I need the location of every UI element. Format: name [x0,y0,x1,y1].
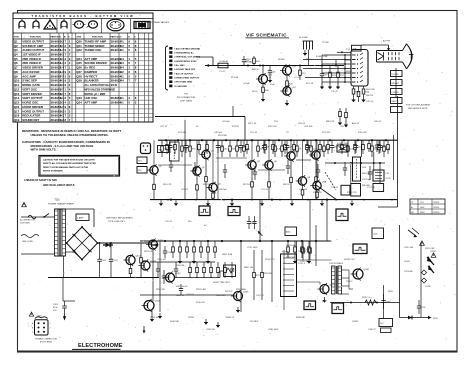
svg-text:C217 .22: C217 .22 [298,251,307,253]
svg-text:(PLUG END): (PLUG END) [40,342,52,344]
svg-text:NO VOLTAGE VALUES: NO VOLTAGE VALUES [146,21,170,24]
svg-text:47pF: 47pF [270,84,275,86]
transistor Q9 IF amplifier [296,175,311,186]
resistor R372 [371,140,378,157]
deflection arrows [408,228,419,237]
fuse box 1 AMP [76,214,89,221]
svg-text:C101: C101 [101,260,107,262]
AC line wire upper [21,216,55,218]
svg-text:R77 470: R77 470 [322,132,331,134]
ground vert x194 [192,258,196,264]
focus divider connecting wire [395,68,397,98]
svg-text:R248 56K: R248 56K [296,317,306,319]
height control box [224,265,236,277]
svg-text:Q205: Q205 [243,292,249,294]
svg-text:Q9A: Q9A [322,180,327,183]
transistor Q205 horizontal oscillator [231,290,249,302]
ground vert x180 [178,258,182,264]
warning triangle [22,202,27,206]
resistor R29 [308,241,311,258]
boost line horizontal [330,302,400,304]
capacitor C204 [247,216,257,229]
ground under L6 [303,50,307,56]
transistor Q1 IF amplifier [147,164,162,175]
capacitor C380 [378,140,386,153]
transistor Q10 video driver [256,73,273,85]
svg-text:SAFETY ALL FOR EACH REPLACEMEN: SAFETY ALL FOR EACH REPLACEMENT PARTS PE… [43,162,96,165]
resistor R81 [368,140,371,152]
svg-text:L6 4.5MC: L6 4.5MC [299,37,309,39]
capacitor C287 [285,140,293,153]
waveform test point [332,303,344,314]
capacitor CY232 [230,262,234,278]
vert section horizontal link C [140,294,233,296]
svg-text:1 AGC KEYING GROUND: 1 AGC KEYING GROUND [174,47,200,50]
power area extra darkening [55,208,66,210]
svg-text:C243 .33: C243 .33 [176,295,185,297]
table body text rows right group [76,39,137,104]
svg-text:C65 .02: C65 .02 [374,121,382,123]
svg-text:38-9001-2: 38-9001-2 [51,118,65,122]
transistor Q101 regulator [123,254,141,266]
labels above IF bus [160,126,367,134]
on-off switch SW1 [43,214,49,218]
transistor outline symbol 8 (power package) [134,22,150,29]
resistor R61 [352,86,360,97]
svg-text:L7G: L7G [420,202,424,204]
wire from PIX connector to VIF line [196,56,213,58]
HV cage box 2 [381,328,392,333]
ground arrow below C103 [63,313,66,321]
resistor R63 [362,86,370,97]
long vertical divider wire C [259,200,261,241]
svg-text:L5 DELAY: L5 DELAY [219,60,229,63]
svg-text:CR205: CR205 [430,251,437,253]
right vertical rail upper [397,96,399,207]
svg-text:SOUND DET: SOUND DET [22,118,39,122]
resistor RY218 [217,262,220,278]
anode wire arrow into CRT [387,45,390,51]
detector box B3 [373,184,384,192]
svg-text:VIF SCHEMATIC: VIF SCHEMATIC [246,32,287,38]
svg-text:NOTED SCHEMATIC: NOTED SCHEMATIC [43,170,64,173]
ground [361,97,365,103]
IF strip supply bus [158,139,398,141]
detector vertical wires [350,163,352,184]
table body column lines [21,39,23,122]
CRT replacement note [406,104,431,110]
resistor R190 [189,140,196,157]
right side vertical wire [420,242,422,318]
svg-text:C47 .02: C47 .02 [160,126,168,128]
VIF underline [246,37,290,39]
svg-text:AGC: AGC [286,231,291,234]
svg-text:R246 3.9: R246 3.9 [226,317,235,319]
svg-text:HV: HV [381,323,385,325]
Q8 collector wire [315,140,317,151]
transistor Q12 blanker [280,85,296,96]
svg-text:380V: 380V [346,71,351,73]
svg-text:R229 820: R229 820 [263,273,273,275]
resistor RX328 [327,140,330,154]
bridge input wires [66,208,95,210]
vert section horizontal link B [175,277,221,279]
ground [336,84,340,90]
transistor outline symbol 4 [61,19,67,29]
diode CR204 inline [408,316,412,320]
waveform test point [336,209,348,221]
svg-text:R66 1M: R66 1M [366,95,373,97]
svg-text:WITH OHM VOLTS.: WITH OHM VOLTS. [31,147,57,151]
resistor R233 [302,241,305,260]
svg-text:C238 .0056: C238 .0056 [268,329,279,331]
resistor R275 [274,140,282,157]
svg-text:BLANKER: BLANKER [85,79,100,83]
upper mid extra labels [218,121,382,137]
capacitor CX171 [169,160,173,172]
capacitor CX345 [343,162,347,176]
ground at x208 [206,200,210,206]
ground [268,77,272,83]
PIX connector pin 6 [169,68,196,71]
arrowhead on video line [206,64,210,67]
svg-text:MFD UNLESS OTHERWISE: MFD UNLESS OTHERWISE [85,88,116,91]
capacitor CY176 [174,262,178,278]
rectifier diode CR105 [103,243,113,247]
resistor RY197 [196,262,199,278]
svg-text:2 HORIZONTAL B+: 2 HORIZONTAL B+ [174,51,194,54]
capacitor C332 [330,140,339,153]
yoke connector diamonds [422,270,427,283]
rail junction dots [152,240,317,242]
capacitor C31 [242,56,250,66]
svg-text:AC INTERLOCK: AC INTERLOCK [20,219,35,222]
sound trap cluster [337,145,348,152]
capacitor C230 [381,294,391,309]
resistor R101 [129,265,132,278]
transistor Q4 IF amplifier [206,182,221,193]
vertical long wire B [240,241,242,312]
resistor R67 [339,108,342,120]
svg-text:C245 .015: C245 .015 [216,295,226,297]
transistor Q5 IF amplifier [245,159,260,170]
vert band extra labels [156,289,264,297]
AC line wire lower [21,253,55,255]
resistor R221 [253,250,262,300]
svg-text:C79 .05: C79 .05 [165,221,173,223]
resistor Q6 emitter [268,169,271,199]
resistor RY190 [189,262,192,278]
transistor Q8 IF amplifier [309,149,324,160]
resistor R348 [347,140,355,157]
svg-text:38-8954-1: 38-8954-1 [111,101,125,105]
focus divider box 4 [391,98,403,104]
ground at x322 [320,200,324,206]
ground extra x309 [307,258,311,264]
resistor RX294 [293,140,296,154]
svg-text:TUNER OSC: TUNER OSC [85,48,103,52]
warning triangle [431,253,436,257]
transistor outline symbol 1 [19,19,25,29]
bridge rectifier CR101-104 [66,226,99,261]
resistor RX207 [206,140,209,154]
vertical long wire A [159,241,161,312]
transistor Q206 horizontal driver [351,268,370,281]
svg-text:1 BLK: 1 BLK [37,316,43,318]
input filter box [158,146,169,153]
longer socket feed stubs [303,59,322,61]
resistor RX265 [264,140,267,154]
resistor RX285 [284,140,287,154]
svg-text:C67 .02: C67 .02 [181,189,189,191]
B+ output wire [98,242,153,244]
capacitor C222 [179,284,183,295]
svg-text:V2B: V2B [353,49,357,51]
transistor Q9A IF amplifier [310,180,326,191]
svg-text:C63 .05: C63 .05 [298,123,306,125]
B plus arrow [152,244,159,247]
svg-text:T101: T101 [54,200,60,202]
svg-text:FOCUS: FOCUS [392,74,400,76]
resistor Q9A emitter [316,190,319,200]
transistor Q3 IF amplifier [199,149,214,160]
svg-text:C75 .02: C75 .02 [331,187,339,189]
B+ feed wire upper [155,116,245,118]
svg-text:Q34: Q34 [76,101,82,105]
resistor R230 [229,140,236,157]
ground vert x208 [206,258,210,264]
power supply bottom rail [48,277,159,279]
resistor Q5 emitter [251,169,254,199]
ground at x292 [290,200,294,206]
svg-text:R95 330: R95 330 [203,184,211,186]
svg-text:47.25: 47.25 [386,178,392,180]
svg-text:AFT AMP: AFT AMP [85,101,98,105]
ground at x232 [230,200,234,206]
long vertical divider wire B [217,140,219,199]
socket junction wire left [337,51,351,53]
capacitor C102 [109,243,119,278]
resistor R244 [243,140,250,157]
resistor Q8 emitter [315,159,318,199]
ground [351,97,355,103]
capacitor CX195 [193,162,197,176]
svg-text:Q29: Q29 [76,79,82,83]
vert section extra labels [244,245,307,275]
svg-text:FUNCTION: FUNCTION [92,36,103,38]
svg-text:Q207: Q207 [330,285,336,287]
socket area labels [346,49,376,103]
capacitor C241 [239,140,248,153]
vertical feed wire to socket [321,55,323,66]
resistor RX247 [246,140,249,154]
capacitor C231 [417,300,427,314]
Q2 collector wire [196,140,198,167]
svg-text:CR209: CR209 [352,321,359,323]
transistor Q202 noise gate [139,260,157,272]
waveform test point [353,244,367,254]
line fuse F101 [28,215,36,219]
svg-text:CONTR: CONTR [392,92,400,94]
svg-text:C7 .01: C7 .01 [294,77,301,79]
svg-text:(TOP VIEW): (TOP VIEW) [180,100,192,102]
svg-text:24KV: 24KV [420,212,425,214]
svg-text:YOKE: YOKE [425,286,431,288]
svg-text:UNLESS 5% TOLERANCE UNLESS OTH: UNLESS 5% TOLERANCE UNLESS OTHERWISE NOT… [31,133,109,137]
CRT internal grid dashes [389,52,400,60]
main VIF video wire [205,65,344,67]
svg-text:C4 5pF: C4 5pF [243,83,250,85]
boost diode CR203 [428,265,434,273]
svg-text:1 AMP: 1 AMP [77,217,84,220]
svg-text:T202 FLYBACK: T202 FLYBACK [329,262,344,265]
power feed down wire [62,278,64,302]
svg-text:R93 4.7K: R93 4.7K [163,184,172,186]
svg-text:ALL CAPACITOR VALUES IN: ALL CAPACITOR VALUES IN [85,84,118,87]
vert section horizontal link A [150,261,215,263]
svg-text:VERT SIZE: VERT SIZE [222,254,233,256]
transistor outline symbol 6 (oval case) [87,21,98,28]
svg-text:C230: C230 [385,301,391,303]
resistor RX320 [319,140,322,154]
transistor outline symbol 5 (oval case) [73,21,86,28]
AC cord squiggle [21,235,39,238]
ground x346 [344,122,348,128]
Q4 collector wire [212,140,214,183]
long vertical divider wire A [184,120,186,200]
flyback taps [342,270,350,294]
svg-text:HORIZ OUT: HORIZ OUT [344,259,356,261]
capacitor C101 [97,243,107,278]
resistor RX199 [198,140,201,154]
svg-text:165V: 165V [346,60,351,62]
second supply rail [140,240,330,242]
svg-text:C223 680: C223 680 [404,271,414,273]
svg-text:R9 2.2K: R9 2.2K [306,83,314,85]
lower rail junction dots [170,199,328,201]
svg-text:POWER TRANSFORMER: POWER TRANSFORMER [48,202,74,205]
resistor R384 [383,140,391,157]
focus divider box 1 [391,71,403,77]
svg-text:Q19: Q19 [14,118,20,122]
capacitor C37 [320,66,328,85]
svg-text:HV 24KV: HV 24KV [250,321,259,323]
Q204 emitter to ground [151,311,153,318]
power connector caption [35,338,57,343]
safety note text [24,179,75,187]
transistor outline symbol 3 (triangular case) [44,18,56,29]
capacitor C356 [354,140,362,153]
svg-text:NOTED. pF = MMF: NOTED. pF = MMF [85,93,106,96]
picture tube funnel [403,44,407,69]
waveform test point [228,207,240,216]
resistor RY211 [210,262,213,278]
sound IF coil can T5 [353,157,361,181]
sync section extra verticals [296,241,298,254]
bottom area extra labels [150,317,376,331]
flyback transformer T202 [329,262,344,294]
Q6 collector wire [268,140,270,161]
HV cage box 1 [379,319,393,327]
resistor R234 [309,241,312,260]
svg-text:C51 .01: C51 .01 [250,132,258,134]
notes text block [22,129,121,151]
resistor Q3 emitter [205,159,208,200]
focus divider box 5 [391,107,403,113]
right cluster labels [404,247,437,288]
B+ feed drop [244,117,246,141]
capacitor CX225 [223,164,227,178]
resistor R48 [286,75,294,92]
ground [322,297,326,303]
table capacitor note block [85,84,118,96]
transistor Q6 IF amplifier [262,159,277,170]
capacitor C308 [306,140,314,153]
svg-text:755053: 755053 [433,212,439,214]
detector box B5 [341,185,350,195]
bottom right extra wires [297,259,332,261]
svg-text:USE EXACT REPLACEMENT: USE EXACT REPLACEMENT [106,217,134,220]
electron gun symbol [378,52,384,61]
svg-text:C55 .02: C55 .02 [340,126,348,128]
right rail corner to horizontal section [378,206,398,208]
resistor RX273 [272,140,275,154]
ground lower c [158,313,162,319]
ground x340 [338,120,342,126]
sync diode CR201 [258,231,263,236]
svg-text:C234 .047: C234 .047 [150,317,160,319]
svg-text:FOR CRT REPLACEMENT: FOR CRT REPLACEMENT [406,104,431,107]
svg-text:VERT HOLD: VERT HOLD [176,286,188,288]
warning triangle [420,241,425,245]
resistor R28 [207,241,210,258]
svg-text:TRANSISTOR BASES - BOTTOM: TRANSISTOR BASES - BOTTOM VIEW [31,14,134,18]
svg-text:R64 470K: R64 470K [366,89,376,91]
transistor Q207 horizontal output [318,283,336,295]
resistor R222 [221,140,228,157]
resistor R44 [253,56,261,66]
component box right of caution box A [137,157,147,164]
resistor RX167 [166,140,169,154]
transformer to bottom rail wire [63,256,65,278]
svg-text:R75 2.2K: R75 2.2K [268,126,277,128]
capacitor C206 [163,246,173,258]
bridge inner diagonals [74,235,90,251]
svg-text:C61 1pF: C61 1pF [222,121,230,123]
ground [320,84,324,90]
resistor Q7 emitter [290,160,293,199]
transistor outline symbol 7 (large can) [107,19,124,31]
svg-text:C240 47: C240 47 [368,329,376,331]
svg-text:R251 22K: R251 22K [156,289,166,291]
component box right of caution box B [137,167,147,174]
svg-text:R71 10K: R71 10K [178,132,187,134]
resistor R53 [329,66,337,85]
right lower rail [399,225,401,318]
svg-text:1: 1 [50,323,51,325]
tuner input connector [141,143,151,154]
svg-text:38-9022-4: 38-9022-4 [111,79,125,83]
table body row lines [13,42,153,44]
svg-text:Q22: Q22 [76,48,82,52]
svg-text:R101 470: R101 470 [313,192,323,194]
svg-text:DIRECT NOTED MANUAL PARTS LIST: DIRECT NOTED MANUAL PARTS LIST IN THE [43,166,89,169]
svg-text:R210 470: R210 470 [196,302,206,304]
svg-text:LINE CORD: LINE CORD [22,241,33,243]
svg-text:R244 18K: R244 18K [170,321,180,323]
svg-text:A MEANS OF SAFETY IN THIS: A MEANS OF SAFETY IN THIS [24,179,57,182]
socket top cap box [352,45,362,51]
